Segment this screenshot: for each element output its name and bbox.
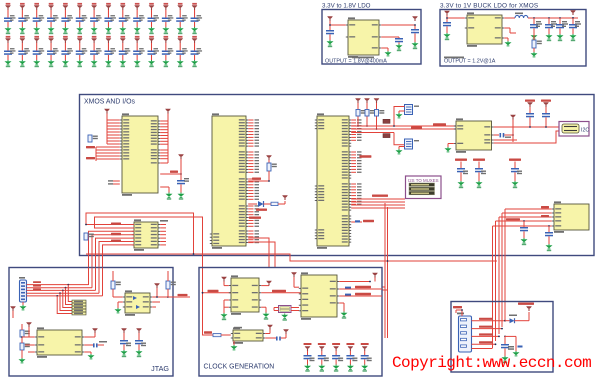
svg-text:XMOS AND I/Os: XMOS AND I/Os: [84, 99, 135, 106]
svg-text:CLOCK GENERATION: CLOCK GENERATION: [204, 364, 275, 371]
svg-text:Copyright:www.eccn.com: Copyright:www.eccn.com: [392, 354, 591, 372]
svg-text:I2C: I2C: [581, 128, 589, 134]
svg-text:I2S TO MUXES: I2S TO MUXES: [408, 178, 439, 183]
svg-text:OUTPUT = 1.8V@400mA: OUTPUT = 1.8V@400mA: [325, 59, 387, 65]
svg-text:3.3V to 1.8V LDO: 3.3V to 1.8V LDO: [322, 3, 371, 10]
svg-text:3.3V to 1V BUCK LDO for XMOS: 3.3V to 1V BUCK LDO for XMOS: [440, 3, 538, 10]
svg-text:OUTPUT = 1.2V@1A: OUTPUT = 1.2V@1A: [444, 59, 496, 65]
svg-text:JTAG: JTAG: [151, 364, 169, 373]
